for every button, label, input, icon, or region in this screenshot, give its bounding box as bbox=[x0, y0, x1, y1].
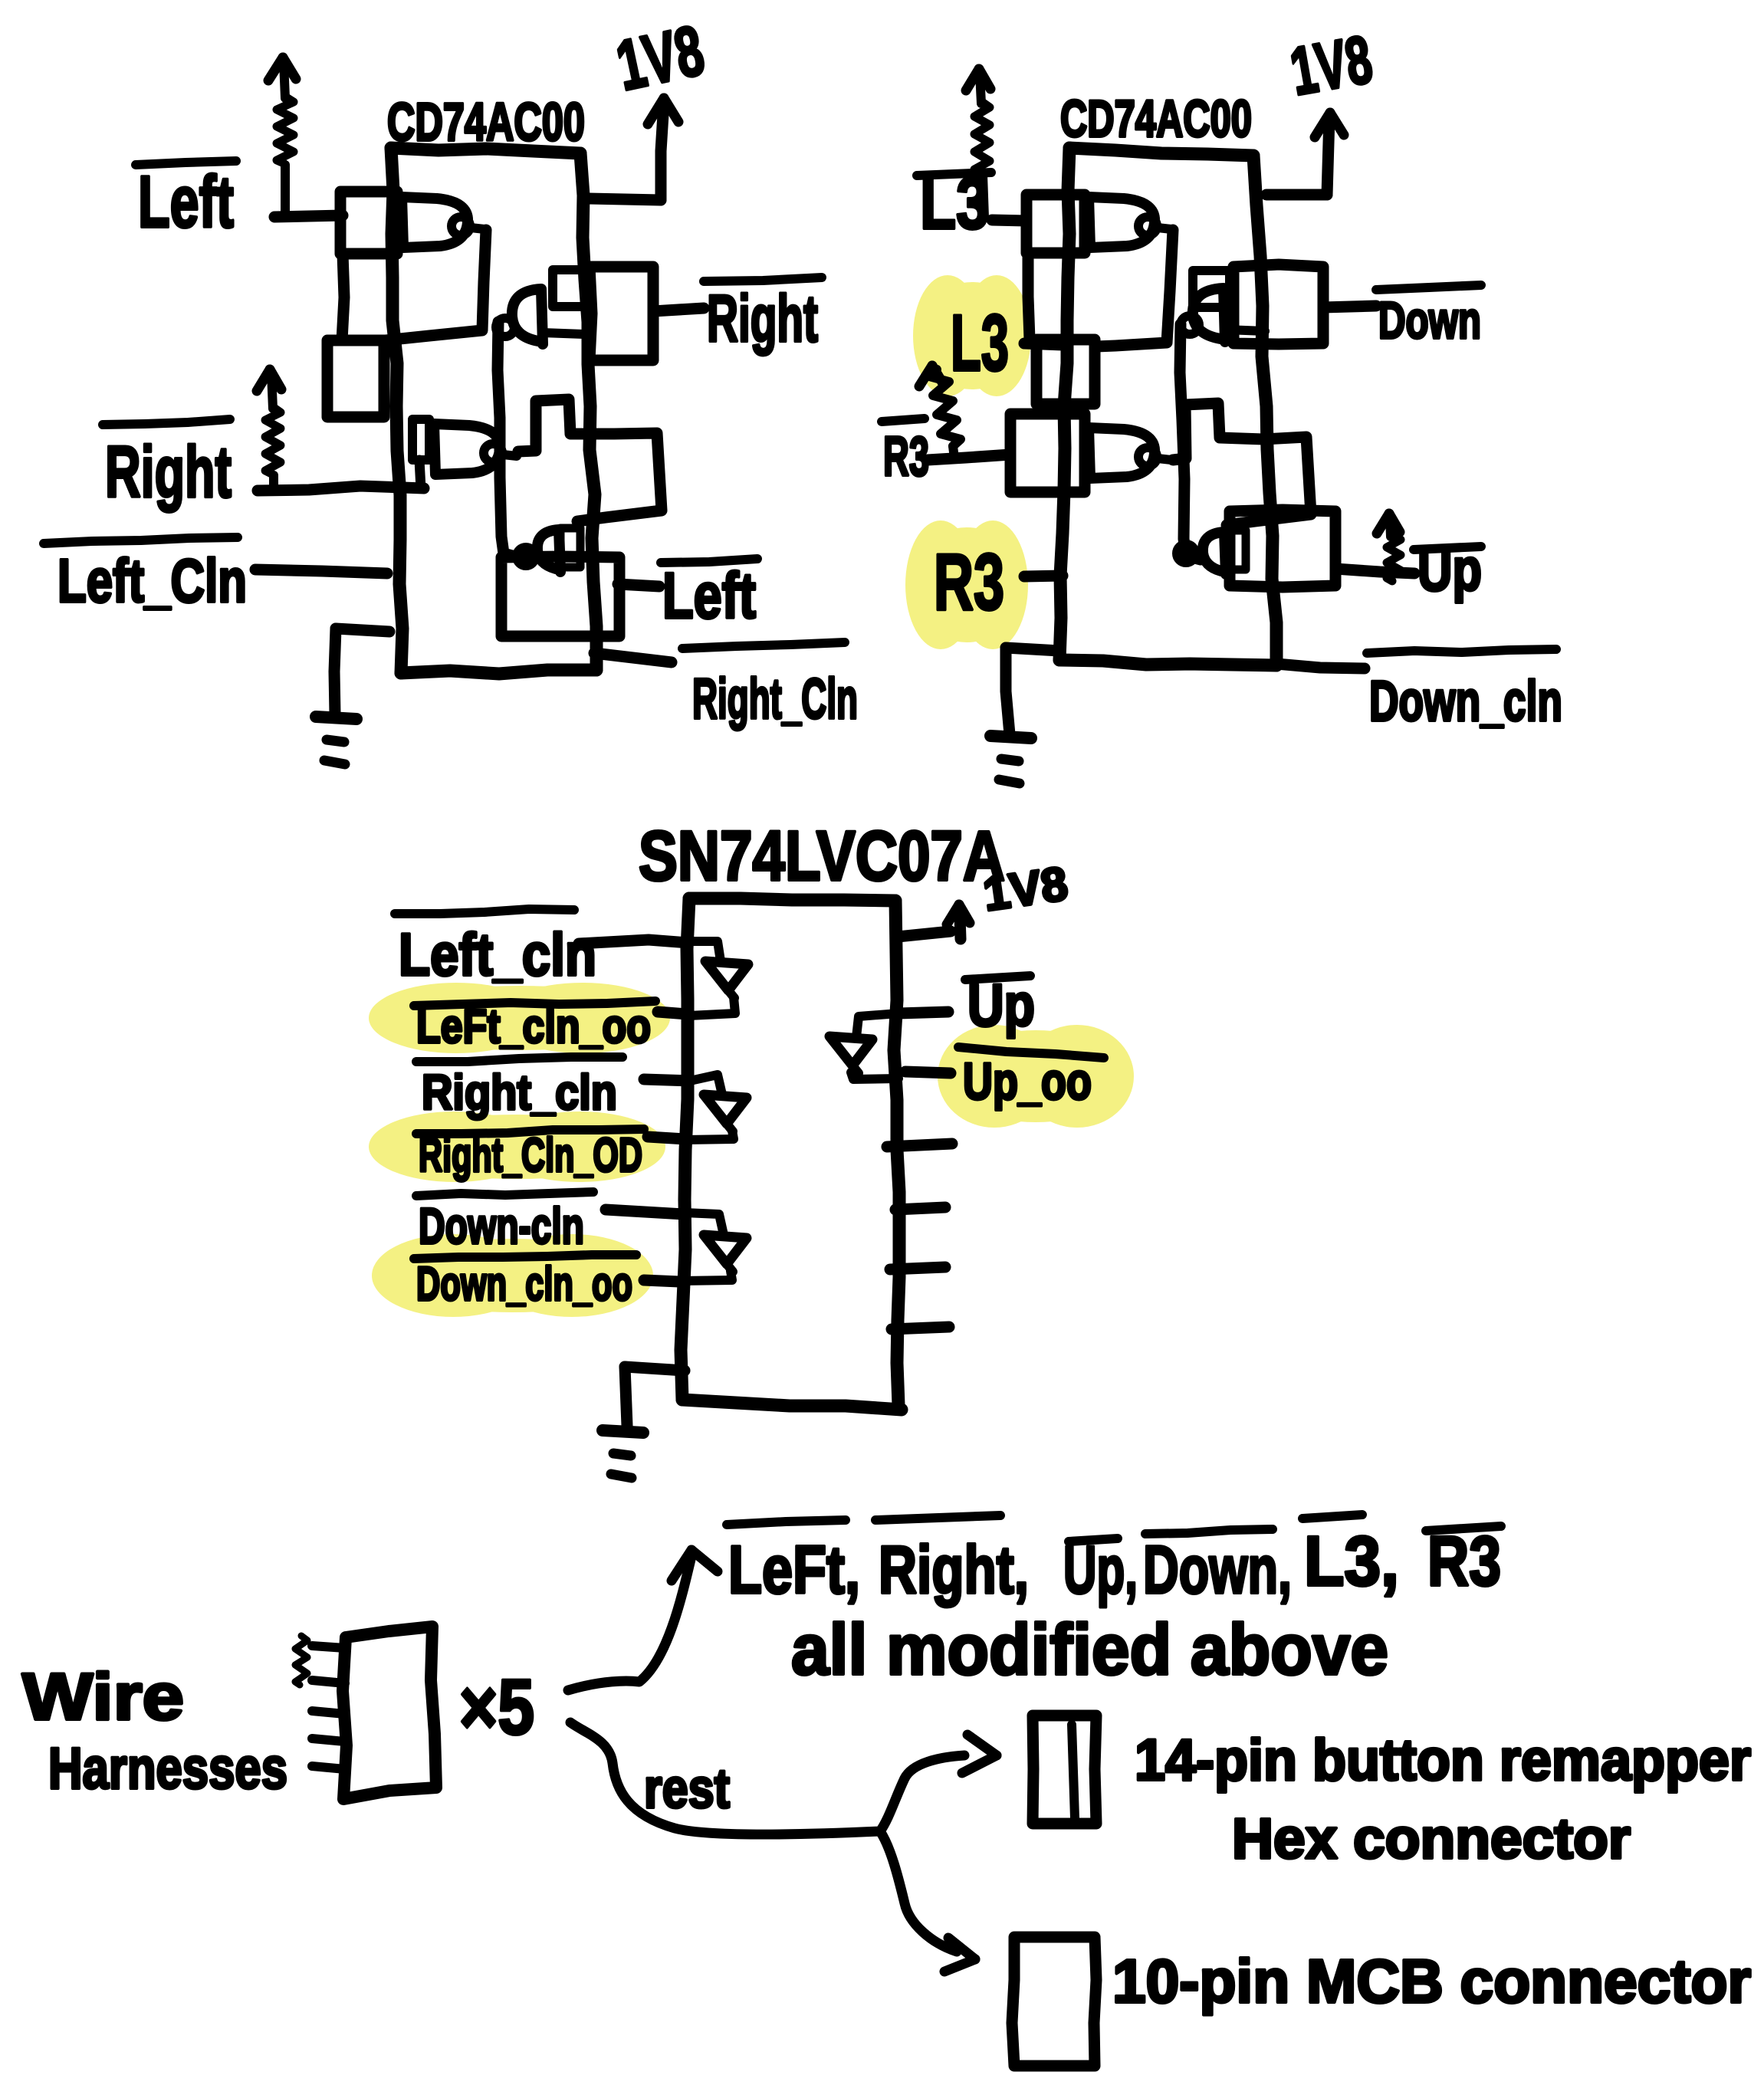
svg-text:Left_Cln: Left_Cln bbox=[57, 547, 247, 615]
svg-text:Right: Right bbox=[707, 282, 818, 356]
svg-text:14-pin button remapper: 14-pin button remapper bbox=[1135, 1728, 1751, 1793]
svg-text:Left: Left bbox=[662, 560, 756, 632]
svg-text:SN74LVC07A: SN74LVC07A bbox=[639, 817, 1005, 895]
svg-text:Right_Cln: Right_Cln bbox=[692, 667, 858, 731]
svg-text:Down_cln: Down_cln bbox=[1369, 669, 1562, 733]
svg-text:×5: ×5 bbox=[459, 1663, 534, 1751]
svg-text:R3: R3 bbox=[883, 426, 929, 488]
svg-text:Up,: Up, bbox=[1063, 1532, 1138, 1607]
svg-text:Down: Down bbox=[1378, 291, 1481, 350]
svg-text:CD74AC00: CD74AC00 bbox=[387, 92, 585, 152]
svg-text:10-pin MCB connector: 10-pin MCB connector bbox=[1112, 1947, 1751, 2015]
svg-text:Down,: Down, bbox=[1143, 1532, 1292, 1607]
svg-text:Down-cln: Down-cln bbox=[419, 1197, 584, 1254]
svg-text:Up: Up bbox=[1417, 536, 1482, 603]
svg-text:Right_Cln_OD: Right_Cln_OD bbox=[419, 1129, 642, 1182]
svg-text:Down_cln_oo: Down_cln_oo bbox=[416, 1258, 632, 1311]
svg-text:Left: Left bbox=[138, 161, 234, 243]
svg-text:Up_oo: Up_oo bbox=[963, 1052, 1092, 1111]
svg-text:CD74AC00: CD74AC00 bbox=[1060, 90, 1252, 148]
svg-text:all modified above: all modified above bbox=[791, 1609, 1388, 1689]
svg-text:Harnesses: Harnesses bbox=[48, 1736, 287, 1801]
svg-text:Right: Right bbox=[105, 432, 232, 513]
svg-text:1V8: 1V8 bbox=[1285, 21, 1378, 110]
svg-text:L3,: L3, bbox=[1304, 1522, 1399, 1601]
svg-text:Up: Up bbox=[967, 971, 1035, 1039]
svg-text:L3: L3 bbox=[951, 299, 1009, 388]
svg-text:R3: R3 bbox=[1427, 1522, 1501, 1601]
svg-text:LeFt,: LeFt, bbox=[728, 1532, 860, 1607]
svg-text:rest: rest bbox=[644, 1758, 730, 1820]
svg-text:Left_cln: Left_cln bbox=[399, 921, 596, 988]
svg-text:Right_cln: Right_cln bbox=[422, 1065, 617, 1120]
svg-text:Right,: Right, bbox=[879, 1532, 1029, 1607]
svg-text:L3: L3 bbox=[920, 163, 989, 245]
svg-text:LeFt_cln_oo: LeFt_cln_oo bbox=[416, 1000, 651, 1053]
svg-text:Hex connector: Hex connector bbox=[1232, 1807, 1631, 1870]
svg-text:R3: R3 bbox=[934, 538, 1004, 627]
svg-text:Wire: Wire bbox=[22, 1660, 184, 1734]
